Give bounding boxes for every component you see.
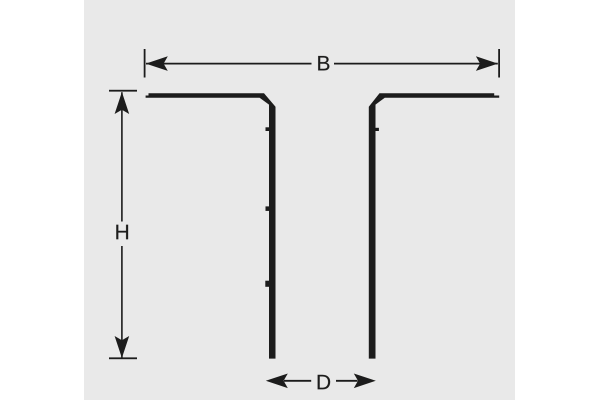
label B <box>318 56 329 70</box>
dimension B arrowhead left <box>146 56 168 71</box>
dimension D left arrow line <box>284 380 311 382</box>
dimension H arrowhead down <box>115 336 130 358</box>
label H <box>116 225 128 239</box>
dimension H line lower segment <box>121 246 123 358</box>
dimension H extension tick top <box>109 90 137 92</box>
dimension B extension tick right <box>498 49 500 78</box>
dimension B line right segment <box>334 63 498 65</box>
profile left flange and leg <box>146 93 276 358</box>
dimension D right arrow line <box>336 380 358 382</box>
dimension H arrowhead up <box>115 92 130 114</box>
gray image panel <box>84 0 515 400</box>
dimension B extension tick left <box>144 49 146 78</box>
left leg barb 2 <box>266 206 270 211</box>
dimension B arrowhead right <box>476 56 498 71</box>
label D <box>318 375 330 389</box>
dimension D arrowhead right <box>354 374 376 389</box>
profile right flange and leg <box>369 93 499 358</box>
dimension B line left segment <box>146 63 312 65</box>
dimension H line upper segment <box>121 92 123 221</box>
left leg barb 3 <box>265 281 269 287</box>
left leg barb 1 <box>266 127 270 131</box>
right leg barb <box>376 128 379 131</box>
dimension D arrowhead left <box>266 374 288 389</box>
dimension H extension tick bottom <box>109 357 137 359</box>
